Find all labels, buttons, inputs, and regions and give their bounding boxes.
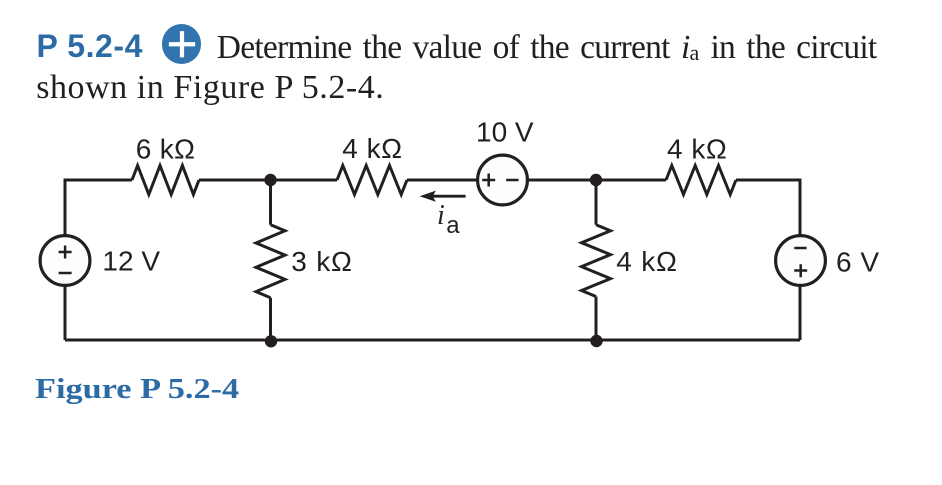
svg-text:10 V: 10 V — [476, 117, 534, 148]
current label i_a — [437, 200, 458, 232]
svg-text:6 kΩ: 6 kΩ — [136, 134, 195, 165]
plus sign of 10V — [482, 174, 495, 187]
wire: right 4k resistor to top-right corner down to 6V source — [736, 180, 800, 235]
svg-text:6 V: 6 V — [836, 246, 880, 277]
node B junction dot (top of 4k branch) — [590, 174, 602, 186]
branch wire: 3k resistor down to node C — [269, 298, 272, 340]
node D junction dot (bottom of 4k branch) — [590, 335, 602, 347]
branch wire: node A down to 3k resistor — [269, 180, 272, 225]
figure caption — [35, 373, 239, 407]
wire: bottom rail — [65, 339, 800, 342]
resistor R4 3 kOhm (vertical) — [256, 225, 285, 298]
resistor R5 4 kOhm (vertical) — [582, 225, 611, 297]
minus sign of 6V — [794, 247, 806, 250]
wire: 10V source to node B and on to right 4k resistor — [528, 179, 666, 182]
svg-text:4 kΩ: 4 kΩ — [342, 133, 402, 164]
node C junction dot (bottom of 3k branch) — [265, 335, 277, 347]
svg-text:12 V: 12 V — [102, 245, 160, 276]
branch wire: vertical 4k resistor down to node D — [595, 297, 598, 341]
wire: 4k resistor to 10V source — [407, 179, 477, 182]
minus sign of 10V — [506, 179, 518, 182]
voltage source V3 6 V (circle) — [776, 236, 826, 286]
problem heading line 2 — [36, 65, 384, 111]
svg-text:4 kΩ: 4 kΩ — [667, 133, 727, 164]
svg-text:4 kΩ: 4 kΩ — [616, 246, 677, 277]
wire: 6k resistor to node A and on to 4k resistor — [199, 179, 337, 182]
resistor R3 4 kOhm (top right, horizontal) — [666, 166, 736, 195]
resistor R2 4 kOhm (top middle, horizontal) — [337, 166, 407, 195]
wire: 6V source down to bottom-right corner — [799, 287, 802, 341]
node A junction dot (top of 3k branch) — [264, 174, 276, 186]
plus sign of 6V — [794, 264, 807, 277]
minus sign of 12V — [59, 272, 72, 275]
problem heading line 1: "P 5.2-4" — [37, 26, 143, 66]
problem heading line 1: serif statement — [217, 25, 877, 74]
current arrow i_a — [432, 195, 466, 198]
resistor R1 6 kOhm (top left, horizontal) — [132, 166, 199, 195]
voltage source V1 12 V (circle) — [40, 236, 90, 286]
plus sign of 12V — [59, 246, 72, 259]
wire: bottom-left corner up to 12V source — [64, 286, 67, 340]
wire: top-left segment from left rail corner to 6k resistor — [65, 180, 132, 235]
blue circle plus icon — [162, 24, 202, 64]
voltage source V2 10 V (circle) — [478, 155, 528, 205]
branch wire: node B down to vertical 4k resistor — [595, 180, 598, 225]
svg-text:3 kΩ: 3 kΩ — [291, 246, 352, 277]
